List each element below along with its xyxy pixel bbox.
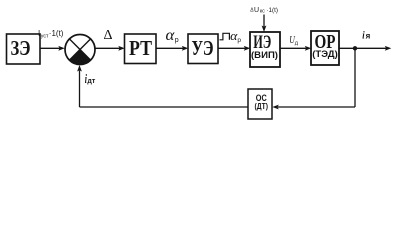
svg-text:·1(t): ·1(t) — [49, 29, 64, 38]
svg-text:уст: уст — [41, 34, 49, 40]
summing junction (comparison element) — [65, 35, 95, 65]
block ZE (ЗЭ) setpoint element — [7, 34, 41, 64]
svg-text:кс: кс — [260, 9, 265, 15]
svg-text:(ТЭД): (ТЭД) — [312, 49, 338, 59]
label I_ust*1(t) — [38, 29, 64, 40]
wire ZE to summing junction — [40, 46, 65, 51]
svg-text:дт: дт — [87, 78, 95, 85]
svg-text:(ВИП): (ВИП) — [251, 50, 278, 61]
svg-text:Δ: Δ — [104, 28, 113, 43]
block IE (ИЭ ВИП) converter — [250, 32, 280, 67]
wire RT to UE — [156, 46, 188, 51]
svg-text:я: я — [366, 32, 371, 41]
wire OR to output — [339, 46, 391, 51]
node junction on output wire — [353, 46, 357, 50]
wire IE to OR — [280, 46, 311, 51]
svg-text:(ДТ): (ДТ) — [255, 101, 269, 111]
svg-text:р: р — [175, 37, 179, 44]
svg-text:U: U — [254, 7, 259, 14]
wire UE to IE — [218, 46, 250, 51]
block OS (ОС ДТ) current sensor feedback — [248, 89, 272, 119]
wire summing junction to RT — [95, 46, 125, 51]
block UE (УЭ) control element — [188, 34, 218, 64]
svg-text:УЭ: УЭ — [192, 36, 214, 60]
wire OS left to below summing junction — [80, 106, 249, 108]
wire disturbance into IE top — [262, 15, 267, 33]
label pulse alpha_p — [220, 29, 242, 44]
wire feedback into OS right side — [272, 105, 355, 110]
block OR (ОР ТЭД) traction motor — [311, 31, 339, 65]
block RT (РТ) current regulator — [125, 34, 157, 64]
wire feedback down from junction — [354, 48, 356, 107]
svg-text:·1(t): ·1(t) — [266, 7, 278, 14]
svg-text:α: α — [166, 27, 175, 44]
label dU_ks*1(t) disturbance — [250, 7, 278, 15]
svg-text:РТ: РТ — [129, 36, 152, 60]
wire up into summing junction — [77, 65, 82, 107]
svg-text:р: р — [237, 37, 241, 44]
svg-text:ЗЭ: ЗЭ — [11, 36, 31, 60]
